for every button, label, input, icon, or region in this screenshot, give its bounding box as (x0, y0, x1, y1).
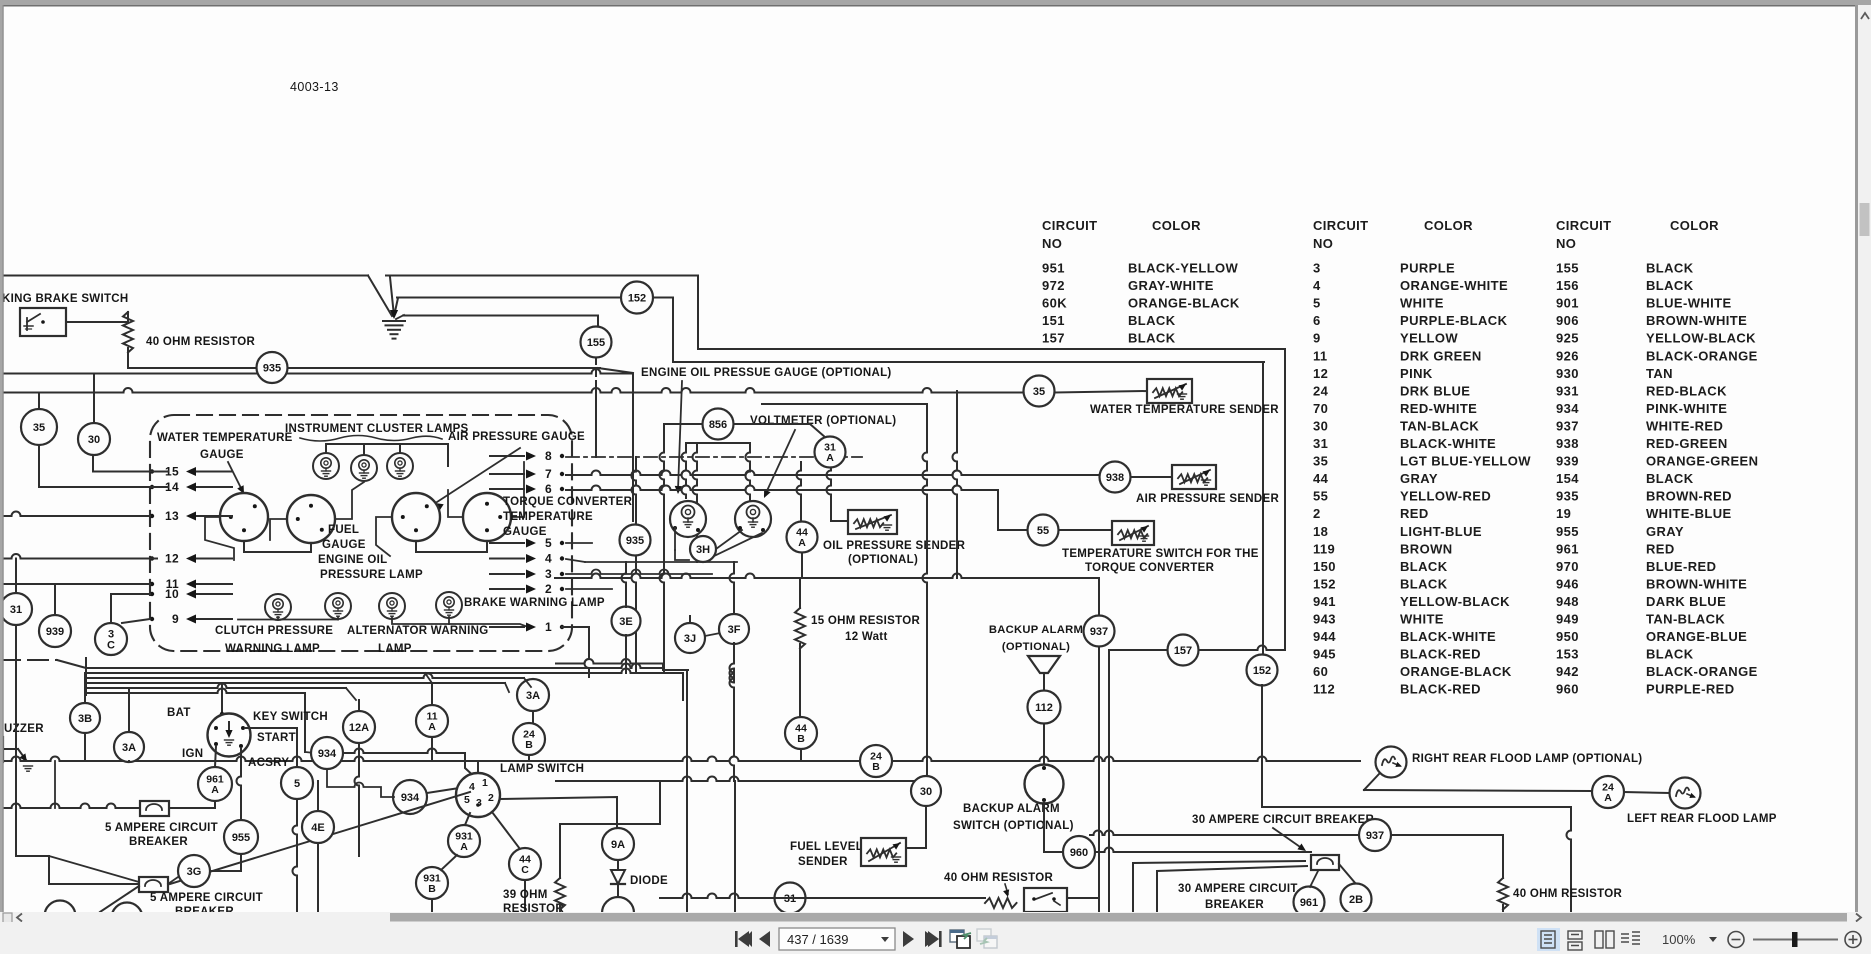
node 31 bottom (775, 883, 806, 914)
wire 937 down (1098, 647, 1100, 912)
svg-text:COLOR: COLOR (1670, 218, 1719, 233)
svg-text:70: 70 (1313, 401, 1328, 416)
wire lamp switch top (477, 761, 479, 773)
wire 3H to voltmeter 2 (714, 533, 762, 556)
svg-text:RED: RED (1646, 541, 1675, 556)
svg-text:9A: 9A (611, 839, 625, 851)
wire pin12 to left edge (0, 554, 157, 559)
svg-text:157: 157 (1042, 331, 1065, 346)
wire x636 into 935b (632, 457, 637, 524)
node 155 (581, 327, 612, 358)
node 4E (302, 811, 334, 843)
wire vertical x633 (632, 374, 634, 522)
wire braid y693 (86, 689, 305, 694)
svg-text:7: 7 (545, 467, 552, 481)
svg-text:9: 9 (1313, 331, 1321, 346)
svg-text:FUEL LEVEL: FUEL LEVEL (790, 841, 863, 853)
svg-text:926: 926 (1556, 348, 1579, 363)
svg-text:VOLTMETER (OPTIONAL): VOLTMETER (OPTIONAL) (750, 415, 896, 427)
svg-text:SWITCH (OPTIONAL): SWITCH (OPTIONAL) (953, 820, 1074, 832)
wire pin2 stub (566, 588, 612, 590)
svg-text:39 OHM: 39 OHM (503, 889, 548, 901)
leader arrow (1273, 828, 1303, 849)
svg-text:NO: NO (1556, 236, 1576, 251)
wire 3E bottom (625, 635, 627, 673)
wire 152 down (1261, 685, 1263, 807)
wire dash left (0, 659, 57, 661)
wire into breaker 2 (1133, 861, 1305, 912)
svg-text:938: 938 (1556, 436, 1579, 451)
wire to 24A (1364, 790, 1592, 791)
wire braid drop (505, 683, 509, 692)
wire bus y392 to water temp sender (0, 388, 1023, 393)
wire to 937 (1098, 578, 1100, 617)
wire to 55 (998, 490, 1027, 530)
svg-text:B: B (872, 761, 880, 773)
wire bus y373 (0, 369, 633, 374)
svg-text:BLACK: BLACK (1646, 471, 1694, 486)
wire pin10 to 3C (111, 593, 150, 595)
node 935 b (620, 525, 651, 556)
svg-text:ORANGE-GREEN: ORANGE-GREEN (1646, 454, 1758, 469)
svg-text:13: 13 (165, 509, 179, 523)
wire resistor to 44B (799, 644, 801, 717)
fuel level sender (861, 838, 906, 866)
node 3G (178, 855, 210, 887)
wire 931B down (431, 899, 433, 912)
wire circle30 up (93, 374, 95, 424)
node 935 (257, 352, 288, 383)
instrument cluster dashed box (150, 415, 572, 651)
svg-text:PURPLE-RED: PURPLE-RED (1646, 682, 1735, 697)
svg-text:937: 937 (1090, 626, 1108, 638)
svg-text:30 AMPERE CIRCUIT BREAKER: 30 AMPERE CIRCUIT BREAKER (1192, 814, 1375, 826)
svg-text:WATER TEMPERATURE SENDER: WATER TEMPERATURE SENDER (1090, 404, 1279, 416)
resistor 40 ohm horizontal (985, 898, 1017, 908)
svg-text:CIRCUIT: CIRCUIT (1556, 218, 1612, 233)
wire top bus to ground (0, 275, 368, 277)
parking brake switch (20, 308, 66, 336)
svg-text:PINK-WHITE: PINK-WHITE (1646, 401, 1727, 416)
svg-text:100%: 100% (1662, 932, 1696, 947)
resistor 40 ohm right (1498, 878, 1508, 910)
wire 3C stub (110, 594, 112, 623)
node 55 (1028, 515, 1059, 546)
svg-text:C: C (521, 864, 529, 876)
wire 30 to pin15 (93, 471, 168, 473)
svg-text:18: 18 (1313, 524, 1328, 539)
svg-text:3J: 3J (684, 633, 696, 645)
node 24B left (513, 723, 545, 755)
wire lamp bus (326, 444, 448, 466)
wire braid drop x683 (682, 673, 684, 700)
svg-text:BLACK: BLACK (1128, 331, 1176, 346)
svg-text:946: 946 (1556, 576, 1579, 591)
svg-text:B: B (797, 733, 805, 745)
svg-text:938: 938 (1106, 472, 1124, 484)
svg-text:YELLOW-BLACK: YELLOW-BLACK (1400, 594, 1510, 609)
svg-text:30: 30 (920, 786, 932, 798)
svg-text:BLACK: BLACK (1400, 576, 1448, 591)
resistor 15 ohm (795, 608, 805, 649)
svg-text:LIGHT-BLUE: LIGHT-BLUE (1400, 524, 1482, 539)
wire 152 upper run (386, 276, 698, 350)
air pressure gauge (392, 493, 440, 541)
wire bus y781 (556, 777, 926, 782)
wire x927 long vertical (923, 404, 928, 775)
wire 39ohm top (559, 824, 561, 878)
svg-text:B: B (428, 883, 436, 895)
node 955 (224, 820, 258, 854)
svg-text:BLACK-YELLOW: BLACK-YELLOW (1128, 261, 1239, 276)
wire to oil sender (831, 520, 848, 522)
node 157 (1168, 635, 1199, 666)
svg-text:A: A (428, 721, 436, 733)
svg-text:ACSRY: ACSRY (248, 757, 289, 769)
wire 152 to inner border (653, 298, 1264, 363)
svg-text:BREAKER: BREAKER (1205, 899, 1264, 911)
svg-text:12: 12 (1313, 366, 1328, 381)
wire long diagonal to lamp switch (170, 792, 470, 884)
wire inner vertical to circle 152 (1262, 362, 1264, 655)
node partial (602, 897, 634, 929)
svg-text:12: 12 (165, 552, 179, 566)
svg-text:152: 152 (1253, 665, 1271, 677)
left rear flood lamp (1670, 778, 1701, 809)
svg-text:PURPLE-BLACK: PURPLE-BLACK (1400, 313, 1508, 328)
wire 3B top (84, 673, 86, 703)
svg-text:939: 939 (1556, 454, 1579, 469)
svg-text:A: A (798, 537, 806, 549)
svg-text:BLACK: BLACK (1128, 313, 1176, 328)
svg-text:2B: 2B (1349, 894, 1363, 906)
wire gauge3-4 (416, 541, 487, 552)
wire 934b to lamp switch (427, 788, 459, 793)
node 44A (787, 522, 818, 553)
svg-text:WHITE-RED: WHITE-RED (1646, 419, 1723, 434)
wire bus y476 air pressure (566, 471, 1099, 476)
node 24B right (860, 745, 892, 777)
wire 11A down (431, 737, 433, 761)
svg-text:KEY SWITCH: KEY SWITCH (253, 711, 328, 723)
wire 31 to breaker2 (16, 625, 139, 884)
svg-text:35: 35 (33, 422, 45, 434)
node 937 right (1359, 819, 1391, 851)
fuel gauge (287, 495, 335, 543)
svg-text:30: 30 (1313, 419, 1328, 434)
svg-text:31: 31 (1313, 436, 1328, 451)
svg-text:55: 55 (1313, 489, 1328, 504)
circuit breaker 30A (1311, 855, 1339, 870)
svg-text:YELLOW: YELLOW (1400, 331, 1458, 346)
wire 939 stub (54, 584, 56, 615)
svg-text:BACKUP ALARM: BACKUP ALARM (963, 803, 1060, 815)
wire bus y761 flood lamp feed (0, 757, 1360, 762)
svg-text:935: 935 (263, 362, 281, 374)
svg-text:12 Watt: 12 Watt (845, 631, 888, 643)
svg-text:3H: 3H (696, 544, 710, 556)
svg-text:40 OHM RESISTOR: 40 OHM RESISTOR (944, 872, 1053, 884)
wire diagonal to breaker2 (49, 856, 139, 882)
wire 3G right (210, 870, 241, 872)
svg-text:934: 934 (401, 792, 420, 804)
svg-text:SENDER: SENDER (798, 856, 848, 868)
svg-text:DRK BLUE: DRK BLUE (1400, 383, 1470, 398)
svg-text:60: 60 (1313, 664, 1328, 679)
svg-text:BROWN-WHITE: BROWN-WHITE (1646, 313, 1747, 328)
wire jog to 3J (663, 664, 688, 671)
wire into breaker 3 (1157, 866, 1307, 912)
svg-text:156: 156 (1556, 278, 1579, 293)
svg-text:4003-13: 4003-13 (290, 80, 339, 94)
wire color table 3 (1556, 218, 1758, 697)
svg-text:WHITE-BLUE: WHITE-BLUE (1646, 506, 1732, 521)
node 939 (39, 615, 71, 647)
wire x589 pin1 drop (585, 627, 590, 677)
svg-text:40 OHM RESISTOR: 40 OHM RESISTOR (146, 336, 255, 348)
svg-text:119: 119 (1313, 541, 1335, 556)
svg-text:DIODE: DIODE (630, 875, 668, 887)
wire 152 left segment (397, 297, 621, 299)
svg-text:BLACK-ORANGE: BLACK-ORANGE (1646, 348, 1758, 363)
svg-text:FUEL: FUEL (328, 524, 359, 536)
wire braid y683 (86, 682, 505, 684)
wire braid pinch (85, 658, 87, 695)
svg-text:RED: RED (1400, 506, 1429, 521)
wire bus y349 to right border (698, 348, 1285, 350)
node 44B (785, 717, 817, 749)
wire circle35 drop (38, 445, 40, 487)
svg-text:1: 1 (482, 777, 488, 789)
wire 35 to sender (1055, 391, 1147, 393)
wire 781line to 39ohm (560, 782, 660, 824)
wire 931A-931B (441, 855, 457, 870)
svg-text:961: 961 (1556, 541, 1579, 556)
wire x697 (693, 443, 698, 562)
wire x735 down (734, 781, 736, 912)
water temperature gauge (220, 493, 268, 541)
svg-text:ENGINE OIL PRESSUE GAUGE (OPTI: ENGINE OIL PRESSUE GAUGE (OPTIONAL) (641, 367, 892, 379)
node 931A (448, 825, 480, 857)
svg-text:939: 939 (46, 626, 64, 638)
wire gauge4 right (511, 462, 524, 517)
svg-text:TEMPERATURE: TEMPERATURE (503, 511, 593, 523)
wire y807 to resistor (1262, 806, 1571, 808)
wire y753 to lamp switch (343, 749, 465, 754)
wire switch to resistor (66, 321, 128, 323)
svg-text:970: 970 (1556, 559, 1579, 574)
node 3H (690, 536, 716, 562)
svg-text:24: 24 (1313, 383, 1329, 398)
water temperature sender (1147, 379, 1192, 403)
wire circle30 drop (92, 455, 94, 472)
wire lamps to pin1 (392, 617, 449, 624)
lamp switch (456, 773, 500, 817)
svg-text:(OPTIONAL): (OPTIONAL) (1002, 641, 1070, 653)
svg-text:CIRCUIT: CIRCUIT (1313, 218, 1369, 233)
svg-text:1: 1 (545, 620, 552, 634)
svg-text:154: 154 (1556, 471, 1579, 486)
svg-text:TAN-BLACK: TAN-BLACK (1400, 419, 1479, 434)
wire gauge4 left (448, 490, 463, 517)
wire horn to 112 (1043, 678, 1045, 690)
lamp (325, 593, 351, 619)
node 35 (21, 409, 57, 445)
wire 3E top (622, 562, 627, 607)
temperature switch torque converter (1112, 521, 1154, 545)
wire diagonal 3 (394, 298, 398, 316)
wire 31 up (15, 559, 17, 594)
svg-text:WHITE: WHITE (1400, 296, 1444, 311)
circuit breaker 5A second (139, 877, 168, 892)
svg-text:951: 951 (1042, 261, 1065, 276)
leader line (678, 381, 682, 490)
node 934 upper (311, 737, 343, 769)
wire 856 to 31A (734, 424, 826, 438)
wire y663 jog (556, 659, 663, 664)
svg-text:BLACK-WHITE: BLACK-WHITE (1400, 629, 1496, 644)
svg-text:BLACK-WHITE: BLACK-WHITE (1400, 436, 1496, 451)
svg-text:8: 8 (545, 449, 552, 463)
node partial (45, 901, 76, 932)
svg-text:BLACK-RED: BLACK-RED (1400, 647, 1481, 662)
svg-text:ALTERNATOR WARNING: ALTERNATOR WARNING (347, 625, 488, 637)
svg-text:TORQUE CONVERTER: TORQUE CONVERTER (503, 496, 633, 508)
svg-text:WHITE: WHITE (1400, 612, 1444, 627)
svg-text:55: 55 (1037, 525, 1049, 537)
svg-text:COLOR: COLOR (1152, 218, 1201, 233)
wire 24A to left lamp (1624, 792, 1669, 793)
wire diagonal 2 (390, 277, 394, 316)
wire gauge pin (674, 528, 676, 550)
svg-text:944: 944 (1313, 629, 1336, 644)
wire braid to 3A (524, 678, 531, 687)
svg-text:BACKUP ALARM: BACKUP ALARM (989, 624, 1083, 636)
wire pin13 to left edge (0, 512, 150, 517)
wire gauge3 (376, 517, 392, 556)
node 3F (719, 614, 749, 644)
svg-text:LGT BLUE-YELLOW: LGT BLUE-YELLOW (1400, 454, 1531, 469)
svg-text:LEFT REAR FLOOD LAMP: LEFT REAR FLOOD LAMP (1627, 813, 1777, 825)
svg-text:DRK GREEN: DRK GREEN (1400, 348, 1482, 363)
wire to 931A (465, 813, 470, 825)
svg-text:856: 856 (709, 419, 727, 431)
svg-text:INSTRUMENT CLUSTER LAMPS: INSTRUMENT CLUSTER LAMPS (285, 423, 469, 435)
node 31 (0, 593, 32, 625)
wire 44C down (524, 880, 526, 912)
wire x305 to 934 (304, 693, 306, 752)
wire x596 (595, 387, 597, 457)
svg-text:2: 2 (1313, 506, 1321, 521)
node 2B (1341, 884, 1372, 915)
svg-text:3E: 3E (619, 616, 632, 628)
svg-text:906: 906 (1556, 313, 1579, 328)
wire 112 down (1043, 724, 1045, 765)
svg-text:BLACK: BLACK (1646, 278, 1694, 293)
wire y443 (686, 442, 750, 444)
wire 3J-3F (705, 633, 720, 636)
wire 960 to breaker (1095, 848, 1311, 853)
svg-text:BROWN-RED: BROWN-RED (1646, 489, 1732, 504)
wire 935 to right (288, 367, 600, 369)
svg-text:437 / 1639: 437 / 1639 (787, 932, 848, 947)
wire circle35 up (38, 393, 40, 410)
svg-text:15 OHM RESISTOR: 15 OHM RESISTOR (811, 615, 920, 627)
node 3A right (517, 679, 549, 711)
node 12A (343, 711, 375, 743)
svg-text:PURPLE: PURPLE (1400, 261, 1455, 276)
node 3B (70, 703, 100, 733)
wire right outer vertical (1284, 349, 1286, 650)
svg-text:WATER TEMPERATURE: WATER TEMPERATURE (157, 432, 293, 444)
wire braid y678 (86, 674, 524, 679)
svg-text:937: 937 (1366, 830, 1384, 842)
svg-text:YELLOW-RED: YELLOW-RED (1400, 489, 1491, 504)
svg-text:960: 960 (1556, 682, 1579, 697)
wire resistor to 935 (128, 367, 257, 369)
svg-text:BAT: BAT (167, 707, 191, 719)
air pressure sender (1172, 465, 1216, 489)
wire pin9 diag (122, 619, 150, 623)
svg-text:4: 4 (1313, 278, 1321, 293)
svg-text:NO: NO (1313, 236, 1333, 251)
svg-text:155: 155 (1556, 261, 1579, 276)
svg-text:GRAY: GRAY (1400, 471, 1438, 486)
gauge (735, 501, 771, 537)
svg-text:GRAY-WHITE: GRAY-WHITE (1128, 278, 1214, 293)
svg-text:9: 9 (172, 612, 179, 626)
circuit breaker 5A (140, 801, 169, 816)
svg-text:BLACK-RED: BLACK-RED (1400, 682, 1481, 697)
svg-text:BRAKE WARNING LAMP: BRAKE WARNING LAMP (464, 597, 605, 609)
svg-text:PRESSURE LAMP: PRESSURE LAMP (320, 569, 423, 581)
wire 31A drop (827, 466, 832, 521)
svg-text:GAUGE: GAUGE (322, 539, 366, 551)
svg-text:5 AMPERE CIRCUIT: 5 AMPERE CIRCUIT (150, 892, 263, 904)
svg-text:60K: 60K (1042, 296, 1067, 311)
svg-text:BLUE-WHITE: BLUE-WHITE (1646, 296, 1732, 311)
svg-text:5 AMPERE CIRCUIT: 5 AMPERE CIRCUIT (105, 822, 218, 834)
svg-text:2: 2 (488, 792, 494, 804)
wire color table 2 (1313, 218, 1531, 697)
wire 12A down (355, 743, 360, 856)
torque converter temperature gauge (463, 493, 511, 541)
svg-text:(OPTIONAL): (OPTIONAL) (848, 554, 918, 566)
svg-text:RIGHT REAR FLOOD LAMP (OPTIONA: RIGHT REAR FLOOD LAMP (OPTIONAL) (1412, 753, 1642, 765)
svg-text:OIL PRESSURE SENDER: OIL PRESSURE SENDER (823, 540, 966, 552)
svg-text:3G: 3G (187, 866, 202, 878)
wire 955 to 3G line (240, 854, 242, 871)
buzzer (3, 737, 26, 762)
svg-text:2: 2 (545, 582, 552, 596)
svg-text:112: 112 (1035, 702, 1053, 714)
svg-text:TORQUE CONVERTER: TORQUE CONVERTER (1085, 562, 1215, 574)
svg-text:949: 949 (1556, 612, 1579, 627)
lamp cluster 1 (313, 453, 339, 479)
node 3C (95, 623, 127, 655)
wire 155 dashed drop (595, 357, 597, 387)
svg-text:BREAKER: BREAKER (129, 836, 188, 848)
wire pin4 stub (566, 559, 585, 562)
svg-text:931: 931 (1556, 383, 1579, 398)
svg-text:C: C (107, 640, 115, 652)
wire 3F bottom (730, 643, 735, 781)
diode (611, 870, 625, 884)
svg-text:DARK BLUE: DARK BLUE (1646, 594, 1726, 609)
resistor 39 ohm (555, 878, 565, 910)
svg-text:35: 35 (1033, 386, 1045, 398)
switch box (1024, 888, 1067, 912)
